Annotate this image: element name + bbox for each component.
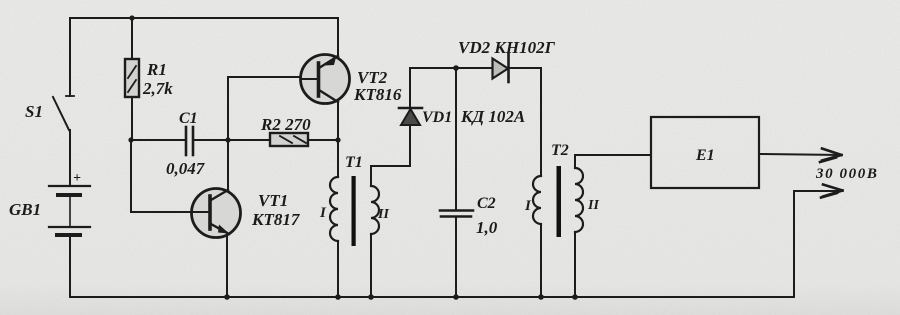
diode VD2 <box>493 54 509 82</box>
resistor R2 <box>270 133 308 146</box>
wire top rail <box>70 17 338 19</box>
svg-text:1,0: 1,0 <box>476 218 498 237</box>
wire node to C1 <box>131 139 186 141</box>
svg-text:GB1: GB1 <box>9 200 41 219</box>
wire T2 secondary to bottom rail <box>574 232 576 297</box>
diode VD1 <box>399 108 422 125</box>
wire T1 primary to bottom rail <box>337 241 339 297</box>
paper scan noise <box>0 0 1 1</box>
transformer T2 secondary winding II <box>575 168 583 232</box>
wire to VT2 base <box>228 76 301 78</box>
svg-text:I: I <box>319 205 327 221</box>
wire node down to VT1 base <box>131 140 192 212</box>
wire C1 to R2 <box>193 139 270 141</box>
wire VT2 collector to T1 <box>337 103 339 177</box>
svg-text:C2: C2 <box>477 195 496 212</box>
wire C2 riser <box>455 68 457 210</box>
wire T1 secondary to bottom rail <box>370 234 372 297</box>
wire R2 to VT2 collector node <box>308 139 338 141</box>
svg-text:КД 102А: КД 102А <box>460 107 525 126</box>
capacitor C1 <box>186 127 193 155</box>
T2 core <box>557 166 562 237</box>
wire VT2 emitter to top rail <box>337 18 339 55</box>
wire R1 to node <box>131 97 133 140</box>
wire left drop to S1 <box>69 18 71 96</box>
svg-text:C1: C1 <box>179 110 198 127</box>
wire T2 primary to bottom rail <box>540 224 542 297</box>
wire bottom rail <box>70 296 794 298</box>
block E1 <box>651 117 759 188</box>
svg-text:S1: S1 <box>25 102 43 121</box>
transformer T1 secondary winding II <box>371 186 379 234</box>
arrow output bottom <box>821 185 843 198</box>
svg-text:II: II <box>377 207 389 222</box>
wire return line <box>794 191 842 297</box>
svg-text:E1: E1 <box>695 147 715 164</box>
svg-text:T2: T2 <box>551 142 569 159</box>
wire VD2 to T2 primary <box>540 68 542 176</box>
svg-text:+: + <box>73 171 81 186</box>
wire E1 output <box>759 154 841 155</box>
capacitor C2 <box>440 211 473 217</box>
transistor VT1 <box>192 189 241 238</box>
svg-text:R2 270: R2 270 <box>260 115 311 134</box>
wire R1 branch from top rail <box>131 18 133 59</box>
wire C2 to bottom rail <box>455 217 457 297</box>
transformer T1 primary winding I <box>330 177 338 241</box>
svg-text:R1: R1 <box>146 60 167 79</box>
svg-text:КТ817: КТ817 <box>251 210 301 229</box>
svg-text:2,7k: 2,7k <box>142 79 173 98</box>
wire T1 secondary top to VD1 <box>371 126 410 186</box>
wire S1 to battery <box>69 130 71 186</box>
transformer T2 primary winding I <box>533 176 541 224</box>
wire VT1 emitter to bottom rail <box>226 236 228 297</box>
switch S1 <box>53 96 74 130</box>
svg-text:VD2 КН102Г: VD2 КН102Г <box>458 38 556 57</box>
transistor VT2 <box>301 55 350 104</box>
resistor R1 <box>125 59 139 97</box>
wire battery to bottom rail <box>69 235 71 296</box>
wire VD2 rail <box>410 67 541 69</box>
svg-text:VD1: VD1 <box>422 109 452 126</box>
svg-text:30 000В: 30 000В <box>815 166 878 182</box>
svg-text:КТ816: КТ816 <box>353 85 402 104</box>
wire VT1 collector riser <box>227 77 229 189</box>
battery GB1 <box>49 186 90 235</box>
arrow output top <box>820 149 842 163</box>
svg-text:VT1: VT1 <box>258 191 288 210</box>
wire T2 secondary to E1 <box>575 155 651 168</box>
svg-text:I: I <box>524 198 532 214</box>
svg-text:T1: T1 <box>345 154 363 171</box>
wire VD1 to top node <box>409 68 411 108</box>
T1 core <box>352 176 356 246</box>
svg-text:0,047: 0,047 <box>166 159 206 178</box>
svg-text:II: II <box>587 198 599 213</box>
